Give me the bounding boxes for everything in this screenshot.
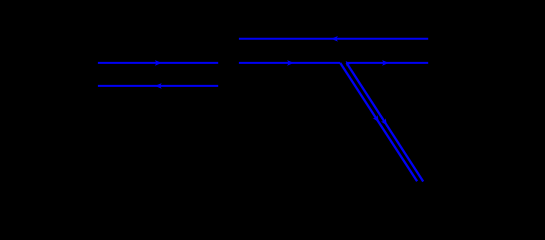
wire incoming fermion line (left top)	[98, 62, 218, 64]
arrow on diagonal line 1	[373, 115, 381, 124]
arrow right on lower right line, first segment	[287, 60, 294, 66]
wire diagonal line 2	[347, 63, 424, 182]
wire diagonal line 1	[340, 63, 417, 181]
wire incoming antifermion line (left bottom)	[98, 85, 218, 87]
wire lower right fermion line, first segment	[239, 62, 340, 64]
arrow left on left-bottom line	[155, 83, 162, 89]
arrow right on left-top line	[155, 60, 162, 66]
wire upper right fermion line	[239, 38, 428, 40]
arrow left on upper right line	[331, 36, 338, 42]
arrow right on lower right line, second segment	[382, 60, 389, 66]
arrow up-left at top of diagonal line 2, at the vertex	[344, 60, 351, 67]
arrow on diagonal line 2	[381, 118, 389, 127]
wire lower right fermion line, second segment	[347, 62, 428, 64]
